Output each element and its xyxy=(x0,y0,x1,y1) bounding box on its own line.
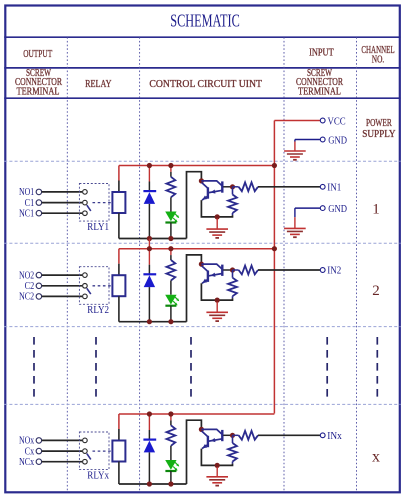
relay coil RLYx xyxy=(112,441,125,462)
LEDx xyxy=(165,460,176,470)
relay coil RLY2 xyxy=(112,275,125,296)
base lead Qx xyxy=(223,434,231,436)
relay contact NC 2 xyxy=(83,294,88,299)
base lead Q2 xyxy=(223,269,231,271)
node resistor top 2 xyxy=(168,246,173,251)
terminal VCC xyxy=(320,118,325,123)
flyback diode D2 lead xyxy=(148,249,150,265)
emitter wire 1 xyxy=(201,200,216,217)
node LED bottom 2 xyxy=(168,319,173,324)
relay contact C 2 xyxy=(83,284,88,289)
LED1 xyxy=(165,212,176,222)
svg-text:NCx: NCx xyxy=(19,457,35,468)
continuation dash x=34 xyxy=(33,337,35,397)
red link to next rail xyxy=(148,239,150,249)
column line 2 xyxy=(139,37,141,491)
base lead Q1 xyxy=(223,186,231,188)
relay contact C 1 xyxy=(83,200,88,205)
svg-text:C1: C1 xyxy=(25,198,35,209)
flyback diode D1 lead xyxy=(148,166,150,182)
node LED bottom 1 xyxy=(168,236,173,241)
VCC rail x xyxy=(119,413,275,415)
svg-text:CONTROL CIRCUIT UINT: CONTROL CIRCUIT UINT xyxy=(149,78,262,90)
VCC bus vertical xyxy=(273,121,275,414)
flyback diode D2 xyxy=(143,273,156,275)
VCC wire xyxy=(274,120,320,122)
continuation dash x=96 xyxy=(95,337,97,397)
base resistor R2b xyxy=(233,269,239,271)
relay contact NO 1 xyxy=(83,190,88,195)
flyback diode Dx lead xyxy=(148,414,150,430)
resistor Rxa vertical xyxy=(170,414,172,420)
terminal IN1 xyxy=(320,184,325,189)
svg-text:NC1: NC1 xyxy=(19,208,34,219)
relay linkage x xyxy=(93,450,112,452)
svg-text:NO1: NO1 xyxy=(19,187,34,198)
emitter wire x xyxy=(201,449,216,466)
pulldown resistor R1c xyxy=(232,187,234,195)
svg-text:Cx: Cx xyxy=(25,446,35,457)
relay contact box RLY1 xyxy=(79,184,109,222)
node rail-bus 2 xyxy=(272,246,277,251)
header row line 3 xyxy=(4,97,400,99)
collector net wire 2 xyxy=(119,321,187,323)
flyback diode D1 xyxy=(143,190,156,192)
transistor Qx darlington xyxy=(199,427,204,432)
relay coil lead bottom RLYx xyxy=(118,462,120,485)
svg-text:OUTPUT: OUTPUT xyxy=(23,48,52,60)
svg-text:RELAY: RELAY xyxy=(85,78,111,90)
terminal GND ch1 xyxy=(320,206,325,211)
relay coil RLY1 xyxy=(112,192,125,213)
screw terminal NC1 xyxy=(36,210,42,216)
relay coil lead top RLYx xyxy=(118,414,120,429)
ground ch1 input xyxy=(294,208,296,217)
wire C2 xyxy=(42,285,82,287)
wire C1 xyxy=(42,202,82,204)
emitter wire 2 xyxy=(201,283,216,300)
pulldown resistor Rxc xyxy=(232,435,234,443)
LED1 arrows xyxy=(175,214,179,218)
terminal GND xyxy=(320,137,325,142)
wire NC1 xyxy=(42,212,82,214)
continuation dash x=191 xyxy=(190,337,192,397)
svg-text:INPUT: INPUT xyxy=(309,46,334,58)
wire NOx xyxy=(42,439,82,441)
svg-text:SUPPLY: SUPPLY xyxy=(362,128,396,140)
node base 2 xyxy=(230,267,235,272)
node emitter-ground 1 xyxy=(215,214,220,219)
relay arm x xyxy=(87,454,91,460)
svg-text:NC2: NC2 xyxy=(19,292,34,303)
pulldown resistor R2c xyxy=(232,270,234,278)
svg-text:INx: INx xyxy=(327,430,342,442)
ground emitter 1 xyxy=(216,219,218,230)
separator dots/chx xyxy=(4,403,400,405)
LEDx arrows xyxy=(175,462,179,466)
svg-text:1: 1 xyxy=(372,201,380,217)
node emitter-ground 2 xyxy=(215,298,220,303)
relay arm 1 xyxy=(87,205,91,211)
screw terminal Cx xyxy=(36,448,42,454)
screw terminal NO1 xyxy=(36,189,42,195)
svg-text:NOx: NOx xyxy=(19,436,35,447)
relay contact NC x xyxy=(83,459,88,464)
separator power/ch1 xyxy=(4,160,400,162)
svg-text:VCC: VCC xyxy=(328,115,346,127)
svg-text:TERMINAL: TERMINAL xyxy=(17,86,60,97)
node resistor top 1 xyxy=(168,163,173,168)
node base x xyxy=(230,433,235,438)
base resistor Rxb xyxy=(233,434,239,436)
header row line 2 xyxy=(4,67,400,69)
svg-text:IN2: IN2 xyxy=(327,265,341,277)
screw terminal NO2 xyxy=(36,272,42,278)
node resistor top x xyxy=(168,411,173,416)
node emitter-ground x xyxy=(215,463,220,468)
svg-text:RLYx: RLYx xyxy=(87,470,109,481)
transistor Q1 darlington xyxy=(199,178,204,183)
node diode bottom x xyxy=(147,481,152,486)
node diode top x xyxy=(147,411,152,416)
svg-text:GND: GND xyxy=(328,203,347,215)
ground emitter 2 xyxy=(216,302,218,313)
column line 3 xyxy=(283,37,285,491)
svg-text:SCHEMATIC: SCHEMATIC xyxy=(170,11,240,31)
node diode top 2 xyxy=(147,246,152,251)
ground emitter x xyxy=(216,467,218,477)
relay contact C x xyxy=(83,449,88,454)
svg-text:x: x xyxy=(372,449,380,466)
terminal IN2 xyxy=(320,268,325,273)
screw terminal C2 xyxy=(36,283,42,289)
relay contact NO x xyxy=(83,438,88,443)
svg-text:RLY2: RLY2 xyxy=(87,305,109,316)
collector net wire 1 xyxy=(119,238,187,240)
relay coil lead bottom RLY1 xyxy=(118,213,120,239)
node diode bottom 1 xyxy=(147,236,152,241)
collector net wire x xyxy=(119,483,187,485)
resistor R1a vertical xyxy=(170,166,172,172)
flyback diode Dx xyxy=(143,439,156,441)
relay arm 2 xyxy=(87,288,91,294)
svg-text:NO.: NO. xyxy=(372,54,385,66)
node LED bottom x xyxy=(168,481,173,486)
wire Cx xyxy=(42,450,82,452)
relay linkage 2 xyxy=(93,285,112,287)
wire to INx xyxy=(258,434,320,436)
GND wire ch1 xyxy=(295,207,320,209)
svg-text:IN1: IN1 xyxy=(327,181,341,193)
wire NO1 xyxy=(42,191,82,193)
wire to IN1 xyxy=(258,186,320,188)
wire NCx xyxy=(42,461,82,463)
transistor Q2 darlington xyxy=(199,262,204,267)
relay contact box RLYx xyxy=(79,432,109,470)
svg-text:NO2: NO2 xyxy=(19,270,34,281)
node diode bottom 2 xyxy=(147,319,152,324)
svg-text:TERMINAL: TERMINAL xyxy=(298,86,341,97)
continuation dash x=377.3 xyxy=(376,337,378,397)
relay linkage 1 xyxy=(93,202,112,204)
screw terminal NCx xyxy=(36,459,42,465)
node diode top 1 xyxy=(147,163,152,168)
VCC rail 1 xyxy=(119,165,275,167)
resistor R2a vertical xyxy=(170,249,172,255)
column line 1 xyxy=(66,37,68,491)
GND wire xyxy=(295,139,320,141)
column line 4 xyxy=(356,37,358,491)
continuation dash x=327.2 xyxy=(326,337,328,397)
relay contact box RLY2 xyxy=(79,267,109,305)
relay coil lead bottom RLY2 xyxy=(118,296,120,322)
wire NC2 xyxy=(42,295,82,297)
base resistor R1b xyxy=(233,186,239,188)
LED2 xyxy=(165,295,176,305)
terminal INx xyxy=(320,433,325,438)
LED2 arrows xyxy=(175,297,179,301)
relay contact NC 1 xyxy=(83,211,88,216)
separator ch1/ch2 xyxy=(4,242,400,244)
svg-text:2: 2 xyxy=(372,283,380,299)
svg-text:GND: GND xyxy=(328,134,347,146)
relay contact NO 2 xyxy=(83,273,88,278)
wire to IN2 xyxy=(258,269,320,271)
screw terminal C1 xyxy=(36,200,42,206)
relay coil lead top RLY2 xyxy=(118,249,120,264)
VCC rail 2 xyxy=(119,248,275,250)
wire NO2 xyxy=(42,274,82,276)
svg-text:C2: C2 xyxy=(25,281,35,292)
screw terminal NOx xyxy=(36,438,42,444)
node rail-bus 1 xyxy=(272,163,277,168)
power ground xyxy=(294,140,296,142)
node base 1 xyxy=(230,184,235,189)
relay coil lead top RLY1 xyxy=(118,166,120,181)
svg-text:RLY1: RLY1 xyxy=(87,222,109,233)
screw terminal NC2 xyxy=(36,294,42,300)
title row line xyxy=(4,36,400,38)
separator ch2/dots xyxy=(4,326,400,328)
